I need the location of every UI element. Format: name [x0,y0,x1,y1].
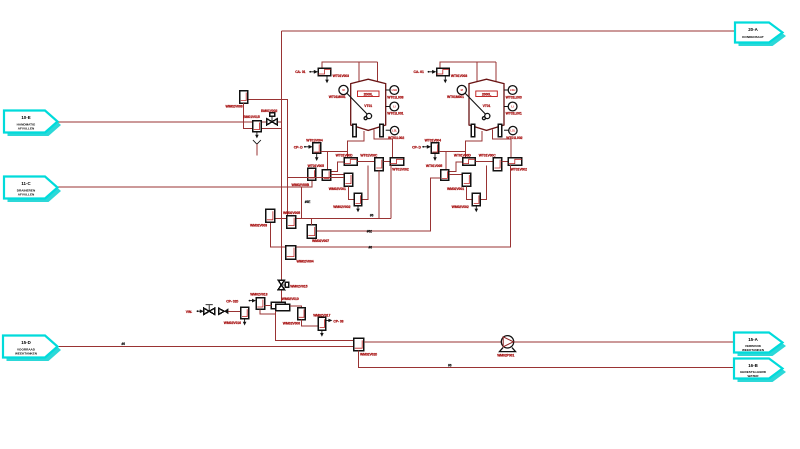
svg-text:15-A: 15-A [748,337,758,342]
svg-text:BM01V002: BM01V002 [261,109,278,113]
wire trunk below bowtie to manifold valve [280,289,282,302]
svg-text:11-C: 11-C [21,181,31,186]
svg-text:WM02V008: WM02V008 [226,105,243,109]
valve WM02V006 [298,308,306,320]
wire lower bypass from WM02V008 [244,103,282,129]
wire drain header manifold 1 [275,217,391,219]
svg-text:#6: #6 [369,245,373,249]
check valve [219,308,224,314]
wire branch into WM02V007 [311,218,313,225]
drain arrow and funnel below BM01V015 [256,132,258,135]
svg-text:#62: #62 [367,230,373,234]
svg-text:WM02V00B: WM02V00B [292,183,310,187]
svg-text:WM02V015: WM02V015 [290,285,307,289]
hand valve with stem [204,308,209,314]
valve WM02V007 [307,225,316,238]
connector 20-A shadow [739,26,787,46]
svg-text:WM02V020: WM02V020 [360,353,377,357]
connector 10-E [4,111,58,133]
arrow into hand valve [197,310,199,312]
connector 10-E shadow [8,114,62,136]
wire WM02V006 to WM02V017 [301,320,318,326]
valve WM02V008 [240,91,248,104]
wire manifold to WM02V006 [290,306,302,308]
svg-text:VW-: VW- [186,310,192,314]
svg-text:CP- 03: CP- 03 [333,319,343,323]
tank unit 2 [412,62,527,212]
connector 11-C shadow [8,180,62,202]
wire trunk B to WM02V001 [287,176,344,178]
valve WM02V004 [286,246,296,260]
connector 20-A [735,23,783,43]
valve WM02V013 [256,298,265,310]
wire to 16-B line [359,351,734,368]
wire branch 11-C to drain header [301,187,303,218]
wire WM02V013 to manifold [265,304,272,306]
svg-text:WM02P001: WM02P001 [497,353,514,357]
connector 11-C [4,177,58,199]
wire 15-D supply line [57,346,354,348]
valve WM02V003 [266,209,275,222]
svg-text:AFVULLEN: AFVULLEN [18,127,35,131]
connector 15-A [734,333,783,353]
connector 16-B shadow [738,362,787,382]
drain arrow below WM02V017 [321,330,323,333]
svg-text:WEEKTANKEN: WEEKTANKEN [15,352,38,356]
svg-text:WM02V005: WM02V005 [283,211,300,215]
svg-text:#6E: #6E [305,200,311,204]
wire riser to WT01V002 [390,165,392,218]
valve WM02V005 [287,216,296,228]
svg-text:WM02V006: WM02V006 [283,321,300,325]
arrow out of WM02V017 to CP [326,320,329,322]
control valve WM02V015 bowtie on trunk [278,280,284,285]
svg-text:WM02V003: WM02V003 [250,223,267,227]
control valve BM01V002 bowtie [267,119,272,125]
wire top header to 20-A [281,30,735,32]
connector 15-A shadow [738,336,787,356]
svg-text:WATER: WATER [748,374,760,378]
wire main left trunk vertical [280,31,282,280]
svg-text:#6: #6 [370,214,374,218]
valve WM02V016 [241,307,249,318]
svg-text:16-B: 16-B [748,363,758,368]
svg-text:CP- 020: CP- 020 [226,300,238,304]
svg-text:WM02V016: WM02V016 [224,321,241,325]
pump WM02P001 [501,336,513,348]
valve WM02V020 [354,338,364,350]
svg-text:WM02V017: WM02V017 [313,313,330,317]
valve WM02V017 [318,317,326,330]
wire manifold down to bottom header [275,311,353,341]
svg-text:BM01V015: BM01V015 [243,115,260,119]
manifold double valve WM02V010 [271,302,285,309]
drain arrow below WM02V016 [244,319,246,322]
wire into WM02V016 [228,310,240,312]
wire manifold2 feed from WM02V007 [316,178,440,231]
wire from WM02V008 to trunk B [248,100,288,216]
svg-text:WEEKTANKEN: WEEKTANKEN [742,348,765,352]
svg-text:WM02V004: WM02V004 [297,259,314,263]
svg-text:#6: #6 [122,342,126,346]
svg-text:WM02V010: WM02V010 [282,297,299,301]
svg-text:#6: #6 [448,364,452,368]
wire descender WT01V00C [378,171,380,219]
svg-text:10-E: 10-E [21,115,30,120]
svg-text:15-D: 15-D [21,340,31,345]
connector 16-B [734,359,783,379]
svg-text:WM02V007: WM02V007 [312,239,329,243]
connector 15-D [3,336,58,358]
svg-text:20-A: 20-A [748,27,758,32]
svg-text:WM02V013: WM02V013 [250,293,267,297]
wire to 15-A verbruik line [364,341,734,343]
svg-text:KONDENSAAT: KONDENSAAT [742,35,764,39]
wire 11-C inlet line [57,180,312,187]
tank unit 1 [294,62,409,212]
valve WT01V005a [308,168,316,180]
air arrow into WM02V013 [249,300,251,302]
valve BM01V015 [253,121,262,132]
wire WM02V013 bottom jog [260,309,275,314]
svg-text:AFVULLEN: AFVULLEN [18,193,35,197]
wire 10-E inlet line [57,121,281,123]
connector 15-D shadow [7,339,62,361]
wire gedistilleerd line to manifold2 [271,165,511,247]
